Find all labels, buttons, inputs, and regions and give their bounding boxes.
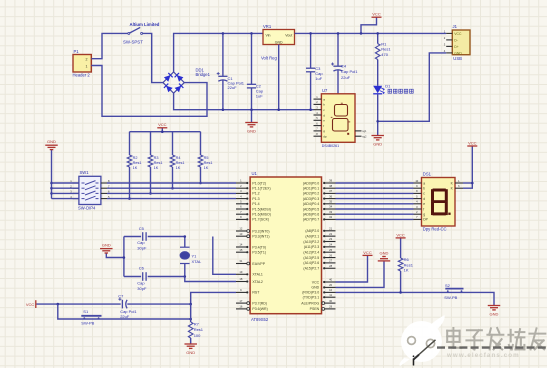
wire C5-C6 left tie bbox=[123, 237, 125, 277]
capacitor C5 30pF bbox=[124, 226, 185, 251]
svg-text:Res1: Res1 bbox=[204, 161, 213, 165]
switch S2 SW-PB bbox=[444, 283, 463, 300]
svg-text:J1: J1 bbox=[453, 24, 458, 29]
wires P0 bus to DS1 bbox=[336, 183, 414, 219]
svg-text:Vin: Vin bbox=[266, 33, 271, 37]
bridge rectifier DD1 Bridge1 bbox=[163, 67, 211, 93]
7-segment display DS1 bbox=[414, 172, 464, 232]
svg-text:Bridge1: Bridge1 bbox=[196, 72, 211, 77]
wires SW1 to U1 port rows bbox=[52, 182, 79, 184]
svg-text:5: 5 bbox=[316, 116, 318, 120]
svg-text:(AD7)P0.7: (AD7)P0.7 bbox=[303, 218, 319, 222]
svg-text:(AD5)P0.5: (AD5)P0.5 bbox=[303, 207, 319, 211]
capacitor C7 22uF bbox=[118, 293, 137, 319]
svg-text:16: 16 bbox=[239, 305, 242, 309]
power VCC port left bbox=[26, 300, 36, 308]
svg-text:10: 10 bbox=[415, 179, 418, 183]
svg-text:30pF: 30pF bbox=[137, 286, 147, 291]
switch S1 SW-PB bbox=[57, 303, 193, 325]
svg-text:27: 27 bbox=[329, 259, 332, 263]
svg-text:D-: D- bbox=[454, 38, 458, 42]
svg-text:Res1: Res1 bbox=[176, 161, 185, 165]
svg-text:(A12)P2.4: (A12)P2.4 bbox=[303, 251, 319, 255]
svg-text:10: 10 bbox=[329, 288, 332, 292]
svg-text:(TXD)P3.1: (TXD)P3.1 bbox=[303, 296, 320, 300]
svg-text:(A10)P2.2: (A10)P2.2 bbox=[303, 240, 319, 244]
svg-text:22uF: 22uF bbox=[341, 75, 351, 80]
svg-text:GND: GND bbox=[102, 242, 111, 247]
capacitor C4 22uF bbox=[331, 33, 358, 93]
svg-text:VCC: VCC bbox=[158, 122, 167, 127]
svg-text:a: a bbox=[323, 97, 325, 101]
svg-text:P1.2: P1.2 bbox=[252, 192, 259, 196]
capacitor C3 1uF bbox=[306, 33, 323, 109]
connector P1 bbox=[73, 49, 92, 77]
wire XTAL1 net bbox=[213, 237, 236, 275]
wire VR1 Vout VCC rail bbox=[295, 32, 447, 34]
svg-text:29: 29 bbox=[329, 305, 332, 309]
svg-text:Altium Limited: Altium Limited bbox=[130, 22, 160, 27]
svg-text:b: b bbox=[323, 103, 325, 107]
U7 digit outline bbox=[335, 105, 348, 117]
svg-text:9: 9 bbox=[416, 184, 418, 188]
ground crystal bbox=[100, 242, 125, 258]
svg-text:(AD2)P0.2: (AD2)P0.2 bbox=[303, 192, 319, 196]
svg-text:R2: R2 bbox=[133, 156, 138, 160]
svg-text:DS4B0261: DS4B0261 bbox=[322, 144, 339, 148]
power VCC top bbox=[361, 12, 382, 34]
svg-text:XTAL: XTAL bbox=[192, 259, 202, 264]
svg-text:R5: R5 bbox=[204, 156, 209, 160]
svg-text:S1: S1 bbox=[83, 309, 89, 314]
resistor R6 1K pullup bbox=[396, 232, 414, 293]
svg-text:4: 4 bbox=[240, 194, 242, 198]
svg-text:Cap: Cap bbox=[137, 240, 145, 245]
svg-text:f: f bbox=[323, 124, 324, 128]
svg-text:(AD3)P0.3: (AD3)P0.3 bbox=[303, 197, 319, 201]
U1 left pins bbox=[236, 179, 271, 312]
MCU U1 AT89S52 bbox=[250, 171, 321, 322]
DS1 digit 8 bbox=[431, 189, 451, 216]
svg-text:1: 1 bbox=[240, 179, 242, 183]
svg-text:6: 6 bbox=[240, 205, 242, 209]
svg-text:(A8)P2.0: (A8)P2.0 bbox=[305, 229, 319, 233]
wire bridge DC- ground rail bbox=[174, 93, 314, 110]
svg-text:VCC: VCC bbox=[396, 232, 405, 237]
svg-text:GND: GND bbox=[275, 40, 283, 44]
svg-text:(A9)P2.1: (A9)P2.1 bbox=[305, 234, 319, 238]
svg-text:GND: GND bbox=[311, 286, 319, 290]
svg-text:21: 21 bbox=[329, 227, 332, 231]
ground below R7 bbox=[184, 338, 197, 355]
svg-text:Res1: Res1 bbox=[194, 327, 204, 332]
svg-text:Dpy Red-CC: Dpy Red-CC bbox=[423, 226, 447, 231]
svg-text:Res1: Res1 bbox=[133, 161, 142, 165]
svg-text:2: 2 bbox=[240, 184, 242, 188]
svg-text:PSEN: PSEN bbox=[310, 307, 320, 311]
capacitor C6 30pF bbox=[124, 266, 185, 291]
svg-text:1uF: 1uF bbox=[256, 93, 263, 98]
7-segment display U7 bbox=[314, 88, 368, 148]
svg-text:35: 35 bbox=[329, 200, 332, 204]
svg-text:P1.6(MISO): P1.6(MISO) bbox=[252, 213, 270, 217]
svg-text:g: g bbox=[423, 213, 425, 217]
resistor R2 1K bbox=[127, 132, 141, 200]
svg-text:SW-SPST: SW-SPST bbox=[123, 40, 143, 45]
resistor R4 1K bbox=[170, 132, 184, 190]
svg-text:1K: 1K bbox=[404, 268, 409, 273]
wire XTAL2 net bbox=[185, 277, 236, 282]
svg-text:18: 18 bbox=[239, 277, 242, 281]
svg-text:GND: GND bbox=[247, 129, 256, 134]
svg-text:22uF: 22uF bbox=[120, 314, 130, 319]
wire RXD net with S2 bbox=[336, 292, 495, 305]
svg-text:25: 25 bbox=[329, 248, 332, 252]
svg-text:20: 20 bbox=[329, 283, 332, 287]
svg-text:GND: GND bbox=[373, 142, 382, 147]
svg-text:g: g bbox=[323, 129, 325, 133]
svg-text:GND: GND bbox=[454, 51, 462, 55]
svg-text:d: d bbox=[423, 197, 425, 201]
wire VR1 GND to ground rail bbox=[278, 45, 280, 110]
svg-text:P3.3(INT1): P3.3(INT1) bbox=[252, 235, 269, 239]
svg-text:P1: P1 bbox=[74, 49, 80, 54]
svg-text:14: 14 bbox=[239, 243, 242, 247]
svg-text:Res1: Res1 bbox=[154, 161, 163, 165]
svg-text:470: 470 bbox=[381, 52, 388, 57]
svg-text:R6: R6 bbox=[404, 257, 410, 262]
svg-text:12: 12 bbox=[239, 227, 242, 231]
svg-text:SW1: SW1 bbox=[80, 170, 90, 175]
wire U1 GND pin to ground bbox=[336, 250, 391, 287]
svg-text:26: 26 bbox=[329, 253, 332, 257]
connector J1 USB bbox=[444, 24, 470, 61]
svg-text:GND: GND bbox=[490, 312, 499, 317]
svg-text:ALE/PROG: ALE/PROG bbox=[301, 301, 319, 305]
svg-text:D+: D+ bbox=[454, 45, 458, 49]
capacitor C1 22uF bbox=[217, 33, 245, 109]
svg-text:P1.0(T2): P1.0(T2) bbox=[252, 181, 266, 185]
svg-text:U7: U7 bbox=[322, 88, 328, 93]
resistor R3 1K bbox=[148, 132, 162, 195]
svg-text:SW-DIP4: SW-DIP4 bbox=[78, 206, 96, 211]
svg-text:Header 2: Header 2 bbox=[73, 73, 91, 78]
wire bridge DC+ to VR1 Vin bbox=[174, 33, 263, 72]
svg-text:Y1: Y1 bbox=[192, 254, 198, 259]
svg-text:3: 3 bbox=[416, 205, 418, 209]
junction dots bbox=[161, 32, 379, 133]
svg-text:VCC: VCC bbox=[312, 280, 320, 284]
svg-text:P3.7(RD): P3.7(RD) bbox=[252, 301, 267, 305]
power VCC resistor network bbox=[157, 122, 167, 132]
svg-text:38: 38 bbox=[329, 184, 332, 188]
svg-text:1K: 1K bbox=[133, 166, 138, 170]
svg-text:P1.4: P1.4 bbox=[252, 202, 259, 206]
svg-text:sg1: sg1 bbox=[362, 129, 367, 133]
svg-text:33: 33 bbox=[329, 210, 332, 214]
svg-text:VCC: VCC bbox=[454, 32, 462, 36]
svg-text:Cap: Cap bbox=[137, 281, 145, 286]
svg-text:(A14)P2.6: (A14)P2.6 bbox=[303, 261, 319, 265]
ground below C2 bbox=[245, 110, 258, 134]
svg-text:1K: 1K bbox=[154, 166, 159, 170]
svg-text:7: 7 bbox=[416, 215, 418, 219]
resistor R7 100 bbox=[188, 304, 203, 338]
svg-text:24: 24 bbox=[329, 243, 332, 247]
svg-text:11: 11 bbox=[329, 293, 332, 297]
ground left of SW1 bbox=[45, 139, 58, 199]
svg-text:2: 2 bbox=[86, 58, 88, 62]
svg-text:VCC: VCC bbox=[468, 140, 477, 145]
svg-text:SW-PB: SW-PB bbox=[444, 295, 457, 300]
svg-text:(A13)P2.5: (A13)P2.5 bbox=[303, 256, 319, 260]
svg-text:(RXD)P3.0: (RXD)P3.0 bbox=[302, 291, 319, 295]
svg-text:(AD4)P0.4: (AD4)P0.4 bbox=[303, 202, 319, 206]
svg-text:EA/VPP: EA/VPP bbox=[252, 262, 265, 266]
wire P1 pin1 to bridge AC2 bbox=[91, 66, 207, 117]
svg-text:Cap Pol1: Cap Pol1 bbox=[341, 69, 358, 74]
svg-text:22: 22 bbox=[329, 232, 332, 236]
watermark text bbox=[437, 328, 547, 359]
svg-text:P1.3: P1.3 bbox=[252, 197, 259, 201]
wire switch to bridge AC1 bbox=[143, 33, 163, 82]
svg-text:23: 23 bbox=[329, 237, 332, 241]
ground below LED bbox=[371, 121, 384, 146]
wire VCC to C7 bbox=[37, 303, 121, 305]
wire LED cathode net bbox=[377, 94, 379, 121]
svg-text:C4: C4 bbox=[341, 63, 347, 68]
svg-text:P1.1(T2EX): P1.1(T2EX) bbox=[252, 187, 270, 191]
svg-text:SW-PB: SW-PB bbox=[81, 320, 94, 325]
voltage regulator VR1 bbox=[261, 24, 295, 61]
svg-text:30: 30 bbox=[329, 299, 332, 303]
svg-text:C6: C6 bbox=[139, 266, 145, 271]
wire U1 VCC pin to VCC bbox=[336, 250, 373, 282]
wire P1 pin2 to switch bbox=[91, 33, 128, 58]
svg-text:GND: GND bbox=[186, 350, 195, 355]
svg-text:dp: dp bbox=[323, 135, 327, 139]
svg-text:1: 1 bbox=[86, 64, 88, 68]
svg-text:f: f bbox=[423, 207, 424, 211]
svg-text:30pF: 30pF bbox=[137, 246, 147, 251]
svg-text:100: 100 bbox=[194, 333, 201, 338]
wire VCC rail of pullups bbox=[130, 131, 201, 133]
svg-text:8: 8 bbox=[240, 215, 242, 219]
svg-text:XTAL1: XTAL1 bbox=[252, 273, 262, 277]
svg-text:P3.4(T0): P3.4(T0) bbox=[252, 245, 266, 249]
svg-text:1K: 1K bbox=[176, 166, 181, 170]
svg-text:22uF: 22uF bbox=[228, 85, 238, 90]
svg-text:5: 5 bbox=[240, 200, 242, 204]
svg-text:DS1: DS1 bbox=[423, 172, 432, 177]
svg-text:a: a bbox=[423, 181, 425, 185]
svg-text:GND: GND bbox=[47, 139, 56, 144]
svg-text:VCC: VCC bbox=[372, 12, 381, 17]
svg-text:Vout: Vout bbox=[285, 33, 292, 37]
svg-text:28: 28 bbox=[329, 264, 332, 268]
switch SW1 SW-DIP4 bbox=[70, 170, 110, 210]
svg-text:(A15)P2.7: (A15)P2.7 bbox=[303, 267, 319, 271]
svg-text:R4: R4 bbox=[176, 156, 181, 160]
svg-text:31: 31 bbox=[239, 259, 242, 263]
svg-text:37: 37 bbox=[329, 189, 332, 193]
switch SW1 SW-SPST bbox=[123, 22, 160, 44]
svg-text:1: 1 bbox=[458, 179, 460, 183]
svg-text:www.elecfans.com: www.elecfans.com bbox=[446, 352, 520, 359]
svg-text:34: 34 bbox=[329, 205, 332, 209]
svg-text:6: 6 bbox=[458, 184, 460, 188]
wire DS1 common to VCC bbox=[463, 140, 477, 188]
svg-text:4: 4 bbox=[416, 200, 418, 204]
svg-text:3: 3 bbox=[316, 106, 318, 110]
svg-text:RST: RST bbox=[252, 291, 260, 295]
svg-text:2: 2 bbox=[444, 36, 446, 40]
svg-text:36: 36 bbox=[329, 194, 332, 198]
svg-text:P1.7(SCK): P1.7(SCK) bbox=[252, 218, 269, 222]
resistor R1 470 bbox=[375, 33, 391, 85]
svg-text:USB: USB bbox=[453, 56, 462, 61]
svg-text:P1.5(MOSI): P1.5(MOSI) bbox=[252, 207, 270, 211]
svg-text:(AD1)P0.1: (AD1)P0.1 bbox=[303, 187, 319, 191]
svg-text:R3: R3 bbox=[154, 156, 159, 160]
svg-text:(AD0)P0.0: (AD0)P0.0 bbox=[303, 181, 319, 185]
svg-text:1uF: 1uF bbox=[315, 76, 322, 81]
svg-text:39: 39 bbox=[329, 179, 332, 183]
svg-text:1: 1 bbox=[316, 95, 318, 99]
svg-text:17: 17 bbox=[239, 299, 242, 303]
svg-text:19: 19 bbox=[239, 270, 242, 274]
resistor R5 1K bbox=[198, 132, 212, 185]
svg-text:DP: DP bbox=[423, 218, 428, 222]
svg-text:XTAL2: XTAL2 bbox=[252, 280, 262, 284]
svg-text:(AD6)P0.6: (AD6)P0.6 bbox=[303, 213, 319, 217]
svg-text:VR1: VR1 bbox=[263, 24, 272, 29]
svg-text:VCC: VCC bbox=[26, 302, 35, 307]
LED D1 bbox=[373, 84, 413, 95]
svg-text:sg2: sg2 bbox=[362, 135, 367, 139]
page mark bbox=[413, 359, 415, 366]
svg-text:P3.5(T1): P3.5(T1) bbox=[252, 251, 266, 255]
capacitor C2 1uF bbox=[247, 33, 264, 109]
svg-text:e: e bbox=[423, 202, 425, 206]
U1 right pins bbox=[301, 179, 335, 312]
svg-text:b: b bbox=[423, 187, 425, 191]
svg-text:C7: C7 bbox=[118, 293, 124, 298]
svg-text:7: 7 bbox=[316, 127, 318, 131]
svg-text:S2: S2 bbox=[445, 283, 451, 288]
svg-text:5: 5 bbox=[416, 194, 418, 198]
svg-text:C5: C5 bbox=[139, 226, 145, 231]
svg-text:GND: GND bbox=[380, 250, 389, 255]
crystal Y1 XTAL bbox=[180, 235, 202, 278]
svg-text:Volt Reg: Volt Reg bbox=[261, 56, 278, 61]
svg-text:32: 32 bbox=[329, 215, 332, 219]
svg-text:1K: 1K bbox=[204, 166, 209, 170]
svg-text:U1: U1 bbox=[252, 171, 258, 176]
svg-text:AT89S52: AT89S52 bbox=[251, 317, 269, 322]
svg-text:4: 4 bbox=[316, 111, 318, 115]
svg-text:P3.2(INT0): P3.2(INT0) bbox=[252, 229, 269, 233]
watermark logo bbox=[400, 315, 445, 366]
svg-text:R7: R7 bbox=[194, 322, 200, 327]
svg-text:13: 13 bbox=[239, 232, 242, 236]
svg-text:d: d bbox=[323, 113, 325, 117]
svg-text:15: 15 bbox=[239, 248, 242, 252]
svg-text:D1: D1 bbox=[385, 84, 391, 89]
ground below S2 bbox=[488, 305, 501, 307]
svg-text:VCC: VCC bbox=[363, 250, 372, 255]
wire C7 to RST bbox=[127, 303, 190, 305]
svg-text:e: e bbox=[323, 119, 325, 123]
svg-text:(A11)P2.3: (A11)P2.3 bbox=[304, 245, 320, 249]
svg-text:40: 40 bbox=[329, 278, 332, 282]
svg-text:P3.6(WR): P3.6(WR) bbox=[252, 307, 267, 311]
svg-text:Res1: Res1 bbox=[404, 262, 414, 267]
